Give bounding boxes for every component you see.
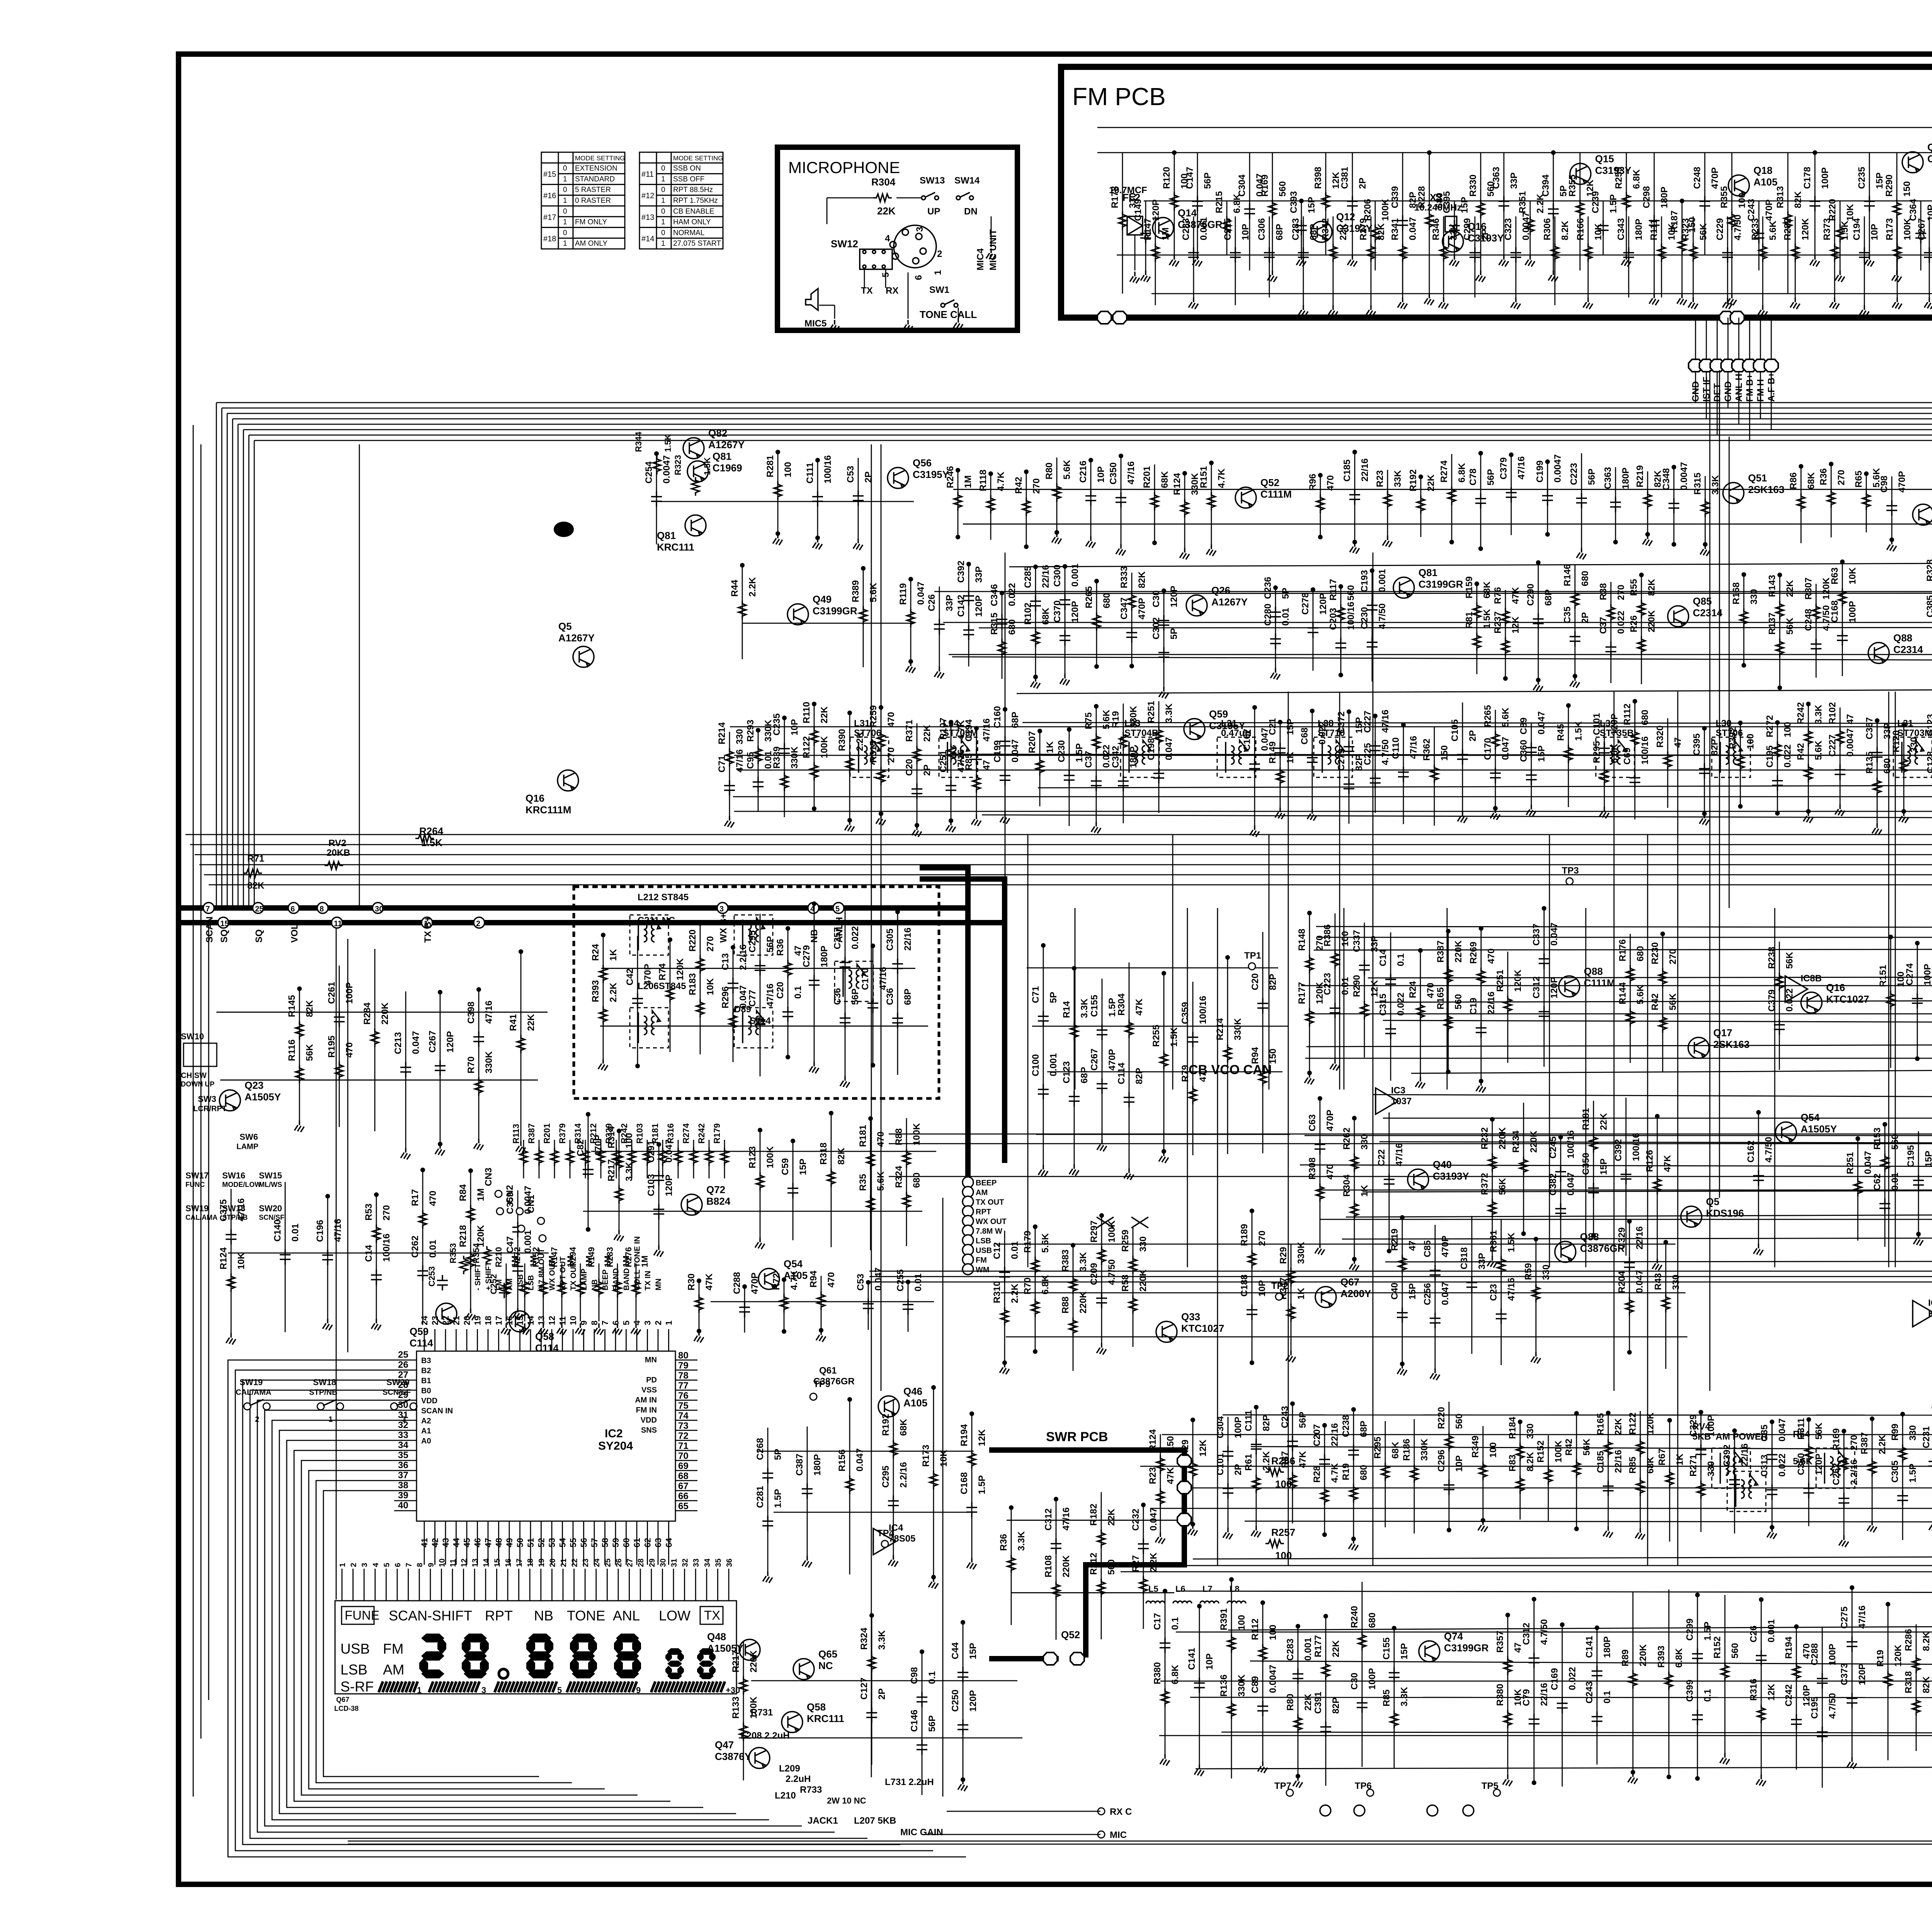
svg-text:R86: R86 [1788, 472, 1799, 489]
svg-text:3: 3 [643, 1321, 653, 1325]
svg-text:24: 24 [593, 1558, 601, 1567]
svg-text:1.5K: 1.5K [1169, 1027, 1179, 1047]
svg-text:STP/NB: STP/NB [309, 1388, 337, 1397]
svg-text:ST735B: ST735B [1600, 728, 1634, 738]
svg-text:28: 28 [398, 1380, 408, 1390]
svg-text:11: 11 [449, 1559, 457, 1567]
svg-text:R393: R393 [590, 980, 601, 1002]
svg-text:8.2K: 8.2K [1525, 1452, 1536, 1471]
svg-text:8: 8 [320, 905, 324, 913]
svg-text:R295: R295 [1592, 741, 1602, 763]
svg-text:470: 470 [1325, 1164, 1335, 1180]
svg-text:0.0047: 0.0047 [1268, 1665, 1278, 1693]
svg-text:CB ENABLE: CB ENABLE [673, 207, 714, 216]
svg-text:C89: C89 [1519, 717, 1529, 734]
svg-text:R19: R19 [1341, 1463, 1351, 1480]
svg-text:L8: L8 [1230, 1584, 1240, 1594]
svg-text:C385: C385 [1925, 595, 1932, 617]
svg-text:C392: C392 [1613, 1139, 1624, 1161]
svg-text:180P: 180P [1621, 468, 1631, 489]
svg-text:10P: 10P [1454, 1455, 1464, 1472]
svg-text:R102: R102 [1827, 702, 1838, 724]
svg-text:R330: R330 [1468, 175, 1478, 197]
svg-text:R233: R233 [1750, 218, 1760, 240]
svg-text:17: 17 [515, 1559, 524, 1567]
svg-text:L206ST845: L206ST845 [638, 981, 686, 991]
svg-text:BEEP: BEEP [976, 1179, 997, 1187]
svg-text:C350: C350 [1581, 1153, 1591, 1175]
svg-text:LSB: LSB [527, 1275, 536, 1290]
svg-text:C288: C288 [732, 1272, 742, 1294]
svg-text:C312: C312 [1531, 976, 1542, 998]
svg-text:12: 12 [460, 1559, 469, 1567]
svg-text:Q12: Q12 [1927, 141, 1932, 153]
svg-text:R386: R386 [1322, 924, 1333, 946]
svg-text:L38: L38 [1318, 718, 1333, 729]
svg-text:B2: B2 [421, 1367, 431, 1375]
svg-text:MN: MN [655, 1278, 663, 1290]
svg-text:C105: C105 [1450, 719, 1460, 741]
svg-text:560: 560 [1890, 1134, 1900, 1150]
svg-text:C95: C95 [745, 752, 756, 769]
svg-text:0.047: 0.047 [916, 581, 926, 605]
svg-text:FM B+: FM B+ [1745, 374, 1755, 402]
svg-text:C295: C295 [881, 1465, 891, 1488]
svg-text:R314: R314 [573, 1123, 583, 1144]
svg-text:1K: 1K [1359, 1185, 1370, 1197]
svg-text:1: 1 [338, 1563, 347, 1567]
svg-text:100: 100 [1340, 931, 1350, 947]
svg-text:SW14: SW14 [954, 175, 980, 186]
svg-text:Q81: Q81 [713, 451, 731, 462]
svg-text:6.8K: 6.8K [1631, 169, 1642, 189]
svg-text:47/16: 47/16 [1516, 456, 1527, 479]
svg-text:31: 31 [670, 1559, 679, 1567]
svg-text:R71: R71 [247, 853, 264, 864]
svg-text:34: 34 [703, 1558, 712, 1567]
svg-text:68P: 68P [903, 989, 913, 1005]
svg-text:C227: C227 [1362, 711, 1373, 733]
svg-text:Q12: Q12 [1336, 211, 1355, 223]
svg-text:220K: 220K [1497, 1127, 1508, 1149]
svg-text:C290: C290 [1526, 584, 1536, 606]
svg-text:330: 330 [1749, 589, 1759, 604]
svg-text:47: 47 [483, 1538, 493, 1547]
svg-text:80: 80 [678, 1350, 689, 1361]
svg-text:R179: R179 [712, 1123, 722, 1144]
svg-text:2: 2 [937, 249, 942, 259]
svg-text:33: 33 [692, 1559, 701, 1567]
svg-text:AM: AM [506, 1278, 514, 1290]
svg-text:R80: R80 [1044, 462, 1054, 479]
svg-text:C178: C178 [1802, 167, 1813, 189]
svg-text:180P: 180P [1602, 1636, 1612, 1658]
svg-text:0.022: 0.022 [1101, 745, 1112, 768]
svg-text:57: 57 [590, 1538, 599, 1547]
svg-text:C111M: C111M [1260, 488, 1292, 500]
svg-text:JACK1: JACK1 [808, 1816, 838, 1826]
svg-text:R272: R272 [1765, 715, 1775, 737]
svg-text:R58: R58 [1120, 1275, 1131, 1292]
svg-text:C305: C305 [1890, 1460, 1900, 1482]
svg-text:23: 23 [430, 1316, 440, 1325]
svg-text:C267: C267 [1917, 218, 1927, 240]
svg-text:R329: R329 [604, 1123, 614, 1144]
svg-text:60: 60 [622, 1538, 631, 1547]
svg-text:55: 55 [568, 1538, 578, 1547]
svg-text:0.01: 0.01 [1340, 977, 1350, 995]
svg-text:C155: C155 [1381, 1637, 1392, 1659]
svg-text:15P: 15P [968, 1643, 978, 1659]
svg-text:R380: R380 [1495, 1684, 1505, 1706]
svg-text:10K: 10K [1593, 223, 1604, 240]
svg-text:15P: 15P [1923, 1151, 1932, 1167]
svg-text:R344: R344 [634, 432, 643, 452]
svg-text:SW19: SW19 [240, 1377, 263, 1387]
svg-text:2P: 2P [1357, 178, 1368, 189]
svg-text:R99: R99 [1890, 1424, 1900, 1441]
svg-text:6: 6 [394, 1563, 402, 1567]
svg-text:A1505Y: A1505Y [1801, 1123, 1837, 1135]
svg-text:C168: C168 [1830, 600, 1840, 622]
svg-text:R383: R383 [1060, 1250, 1071, 1272]
svg-text:C71: C71 [1031, 986, 1041, 1003]
svg-text:C147: C147 [1185, 167, 1195, 189]
svg-text:C26: C26 [927, 594, 937, 611]
svg-text:R94: R94 [808, 1270, 819, 1288]
svg-text:R282: R282 [1782, 218, 1793, 240]
svg-text:Q16: Q16 [526, 792, 544, 804]
svg-text:MN: MN [645, 1356, 657, 1364]
svg-text:330K: 330K [1419, 1438, 1430, 1461]
svg-text:C285: C285 [1023, 566, 1033, 588]
svg-text:680: 680 [1580, 571, 1590, 586]
svg-text:4.7K: 4.7K [1216, 468, 1227, 488]
svg-text:4.7/50: 4.7/50 [1827, 1693, 1838, 1719]
svg-text:1: 1 [563, 197, 567, 205]
svg-text:R173: R173 [1884, 218, 1895, 240]
svg-text:C363: C363 [1603, 467, 1613, 489]
svg-text:2P: 2P [922, 765, 932, 776]
svg-text:C146: C146 [909, 1710, 920, 1732]
svg-text:R320: R320 [1655, 726, 1665, 748]
svg-text:#12: #12 [641, 192, 654, 200]
svg-text:47/16: 47/16 [878, 967, 888, 990]
svg-text:47: 47 [981, 760, 992, 770]
svg-text:R136: R136 [1219, 1675, 1229, 1697]
svg-text:100K: 100K [1107, 1220, 1117, 1243]
svg-text:R14: R14 [1061, 1001, 1072, 1018]
svg-text:0.1: 0.1 [927, 1671, 937, 1684]
svg-text:Q88: Q88 [1584, 966, 1603, 977]
svg-text:R19: R19 [1111, 711, 1121, 728]
svg-text:35: 35 [714, 1559, 723, 1567]
svg-text:S114: S114 [750, 1016, 771, 1026]
svg-text:33P: 33P [1477, 1253, 1487, 1270]
svg-text:R237: R237 [1493, 611, 1503, 633]
svg-text:C267: C267 [427, 1030, 438, 1052]
svg-text:ST706: ST706 [854, 728, 881, 738]
svg-text:SW1: SW1 [929, 285, 949, 295]
svg-text:100P: 100P [1367, 1668, 1378, 1690]
svg-text:R27: R27 [1131, 1555, 1141, 1572]
svg-text:12K: 12K [1198, 1439, 1208, 1457]
svg-text:3: 3 [915, 227, 925, 232]
svg-text:R181: R181 [1581, 1108, 1591, 1130]
svg-text:R152: R152 [1536, 1440, 1546, 1462]
svg-text:C231: C231 [1921, 1426, 1932, 1448]
svg-text:#17: #17 [543, 213, 556, 222]
svg-text:R217: R217 [606, 1159, 617, 1181]
svg-text:10P: 10P [1096, 466, 1106, 483]
svg-text:82P: 82P [1709, 739, 1720, 756]
svg-text:47K: 47K [1298, 1451, 1308, 1468]
svg-text:B3: B3 [421, 1357, 431, 1365]
svg-text:82K: 82K [836, 1148, 847, 1165]
svg-text:100/16: 100/16 [1566, 1130, 1576, 1158]
svg-text:C111: C111 [1243, 1410, 1254, 1431]
svg-text:R122: R122 [1628, 1413, 1638, 1435]
svg-text:VDD: VDD [421, 1397, 437, 1405]
svg-text:270: 270 [1616, 585, 1626, 600]
svg-text:9: 9 [579, 1321, 589, 1325]
svg-text:R81: R81 [1464, 612, 1475, 629]
svg-text:R55: R55 [1629, 579, 1639, 596]
svg-text:CAL/AMA: CAL/AMA [236, 1388, 271, 1397]
svg-text:13: 13 [471, 1559, 480, 1567]
svg-text:Q5: Q5 [558, 621, 572, 632]
svg-text:C381: C381 [1340, 167, 1350, 189]
svg-text:0.047: 0.047 [1010, 739, 1020, 762]
svg-text:R75: R75 [1083, 712, 1094, 729]
svg-text:8.2K: 8.2K [1921, 1631, 1932, 1651]
svg-text:330: 330 [1541, 1265, 1551, 1280]
svg-text:R271: R271 [1688, 1454, 1699, 1476]
svg-text:RPT: RPT [485, 1608, 513, 1624]
svg-text:R194: R194 [1784, 1636, 1794, 1659]
svg-text:R67: R67 [1657, 1448, 1667, 1465]
svg-text:120P: 120P [974, 595, 984, 617]
svg-text:R110: R110 [801, 702, 812, 723]
svg-text:C3193Y: C3193Y [1336, 223, 1372, 234]
svg-text:100/16: 100/16 [823, 455, 833, 483]
svg-text:R135: R135 [1864, 751, 1875, 774]
svg-text:C20: C20 [1250, 973, 1260, 990]
svg-text:R38: R38 [1598, 583, 1609, 600]
svg-text:C203: C203 [1328, 608, 1338, 630]
svg-text:82K: 82K [1646, 579, 1657, 596]
svg-text:47/16: 47/16 [981, 718, 992, 741]
svg-text:64: 64 [664, 1538, 674, 1547]
svg-text:0.0047: 0.0047 [662, 455, 672, 483]
svg-text:SCAN-SHIFT: SCAN-SHIFT [389, 1608, 472, 1624]
svg-text:R389: R389 [850, 580, 861, 602]
svg-text:Q65: Q65 [818, 1648, 837, 1660]
svg-text:0: 0 [661, 165, 665, 173]
svg-text:R362: R362 [1422, 739, 1432, 761]
svg-text:68K: 68K [1645, 1456, 1656, 1474]
svg-text:R192: R192 [881, 1414, 891, 1436]
svg-text:56P: 56P [927, 1715, 937, 1732]
svg-text:2.2K: 2.2K [1010, 1284, 1020, 1303]
svg-text:15: 15 [493, 1559, 502, 1567]
svg-text:C127: C127 [859, 1678, 869, 1700]
svg-text:SW3: SW3 [198, 1094, 216, 1104]
svg-text:C114: C114 [410, 1337, 433, 1349]
svg-text:LCD-38: LCD-38 [334, 1705, 359, 1712]
svg-text:R214: R214 [717, 722, 727, 745]
svg-text:43: 43 [441, 1538, 451, 1547]
svg-text:C256: C256 [1422, 1283, 1433, 1305]
svg-text:TX B+: TX B+ [423, 916, 433, 943]
svg-text:10K: 10K [939, 1450, 949, 1467]
svg-text:56P: 56P [1298, 1412, 1308, 1428]
svg-text:120P: 120P [1318, 593, 1328, 615]
svg-text:R204: R204 [1617, 1271, 1627, 1293]
svg-text:4.7/50: 4.7/50 [1377, 604, 1388, 629]
svg-text:R165: R165 [1435, 987, 1446, 1009]
svg-text:ST710: ST710 [1318, 728, 1345, 738]
svg-text:330: 330 [1359, 1134, 1370, 1150]
svg-text:C238: C238 [1341, 1415, 1351, 1437]
svg-text:R308: R308 [1307, 1158, 1318, 1180]
svg-text:10: 10 [438, 1559, 446, 1567]
svg-text:0.047: 0.047 [855, 1448, 865, 1471]
svg-text:56K: 56K [1814, 1422, 1824, 1440]
svg-text:R304: R304 [1342, 1174, 1352, 1197]
svg-text:22K: 22K [877, 205, 896, 217]
svg-text:22/16: 22/16 [1740, 1443, 1750, 1467]
svg-text:20: 20 [548, 1559, 557, 1567]
svg-text:R192: R192 [1408, 469, 1418, 491]
svg-text:680: 680 [1367, 1613, 1378, 1628]
svg-text:R259: R259 [1120, 1230, 1131, 1252]
svg-text:20KB: 20KB [327, 848, 350, 858]
svg-text:C379: C379 [1498, 457, 1509, 479]
svg-text:R361: R361 [1488, 1230, 1499, 1252]
svg-text:R65: R65 [1854, 471, 1864, 488]
svg-text:8: 8 [590, 1321, 599, 1325]
svg-text:C230: C230 [1056, 740, 1067, 762]
svg-text:100: 100 [1268, 1625, 1278, 1640]
svg-text:R297: R297 [1089, 1221, 1099, 1243]
svg-text:14: 14 [526, 1316, 536, 1325]
svg-text:R165: R165 [1595, 1413, 1606, 1435]
svg-text:C279: C279 [801, 945, 812, 967]
svg-text:R242: R242 [619, 1123, 629, 1144]
svg-text:470: 470 [428, 1191, 438, 1206]
svg-text:18: 18 [526, 1559, 535, 1567]
svg-text:82K: 82K [247, 881, 265, 891]
svg-text:68P: 68P [1079, 1067, 1090, 1083]
svg-text:15P: 15P [1306, 197, 1317, 213]
svg-text:120K: 120K [1893, 1644, 1903, 1667]
svg-text:C339: C339 [1390, 186, 1400, 208]
svg-text:56P: 56P [1587, 469, 1597, 485]
svg-text:22/16: 22/16 [1330, 1423, 1340, 1446]
svg-text:79: 79 [678, 1360, 689, 1371]
svg-text:A105: A105 [1753, 176, 1777, 188]
svg-text:3.3K: 3.3K [1399, 1686, 1410, 1706]
svg-text:R733: R733 [800, 1785, 822, 1795]
svg-text:R119: R119 [898, 583, 908, 605]
svg-text:R126: R126 [1645, 1150, 1655, 1172]
svg-text:ANL: ANL [613, 1608, 640, 1624]
svg-text:R186: R186 [1401, 1439, 1412, 1461]
svg-text:Q82: Q82 [708, 427, 727, 439]
svg-text:C89: C89 [1250, 1676, 1260, 1693]
svg-text:6.8K: 6.8K [1170, 1664, 1180, 1684]
svg-text:68P: 68P [1274, 224, 1285, 240]
svg-text:30: 30 [659, 1559, 667, 1567]
svg-text:R293: R293 [745, 720, 756, 742]
svg-text:22K: 22K [819, 706, 830, 724]
svg-text:100/16: 100/16 [1631, 1133, 1641, 1161]
svg-text:R313: R313 [1775, 186, 1786, 208]
svg-text:MIC GAIN: MIC GAIN [900, 1827, 943, 1838]
svg-text:A1267Y: A1267Y [1211, 596, 1248, 608]
svg-text:0.1: 0.1 [1602, 1691, 1612, 1703]
svg-text:470: 470 [1425, 983, 1436, 998]
svg-text:C199: C199 [1535, 461, 1545, 483]
svg-text:560: 560 [1453, 994, 1464, 1010]
svg-text:R137: R137 [1767, 612, 1777, 634]
svg-text:R169: R169 [1831, 1428, 1842, 1450]
svg-text:R214: R214 [1215, 1018, 1225, 1040]
svg-text:C312: C312 [1043, 1508, 1054, 1530]
svg-text:2.2K: 2.2K [1148, 1552, 1159, 1572]
svg-text:C232: C232 [1131, 1509, 1141, 1531]
svg-text:0: 0 [661, 229, 665, 237]
svg-text:R232: R232 [1480, 1127, 1490, 1149]
svg-text:15P: 15P [798, 1159, 808, 1175]
svg-text:KTC1027: KTC1027 [1826, 993, 1869, 1005]
svg-text:C248: C248 [1692, 167, 1702, 189]
svg-text:R306: R306 [1542, 218, 1553, 240]
svg-text:C302: C302 [1151, 617, 1162, 639]
svg-text:R23: R23 [1148, 1467, 1158, 1484]
svg-text:24: 24 [420, 1316, 429, 1325]
svg-text:0.001: 0.001 [1766, 1619, 1777, 1642]
svg-text:C185: C185 [1342, 459, 1352, 481]
svg-text:22: 22 [571, 1559, 579, 1567]
svg-text:BAND: BAND [622, 1268, 631, 1290]
svg-text:L34: L34 [943, 718, 959, 729]
svg-text:C359: C359 [1180, 1002, 1190, 1024]
svg-text:C357: C357 [832, 927, 843, 949]
svg-text:R143: R143 [1767, 575, 1777, 597]
svg-text:Q23: Q23 [245, 1080, 264, 1091]
svg-text:470P: 470P [1710, 167, 1720, 189]
svg-text:KDS196: KDS196 [1706, 1207, 1744, 1219]
svg-text:0.047: 0.047 [1863, 1151, 1873, 1174]
svg-text:R230: R230 [1650, 942, 1660, 964]
svg-text:4.7/50: 4.7/50 [1107, 1259, 1117, 1285]
svg-text:C347: C347 [1119, 597, 1129, 619]
svg-text:C63: C63 [1307, 1114, 1318, 1131]
svg-text:C162: C162 [1746, 1141, 1756, 1163]
svg-text:R387: R387 [1435, 940, 1446, 962]
svg-text:C30: C30 [1151, 590, 1162, 607]
svg-text:R324: R324 [859, 1627, 869, 1650]
svg-text:R113: R113 [511, 1124, 521, 1144]
svg-text:TONE: TONE [567, 1608, 605, 1624]
svg-text:Q74: Q74 [1444, 1630, 1463, 1642]
svg-text:0: 0 [661, 207, 665, 216]
svg-text:B824: B824 [706, 1195, 731, 1207]
svg-text:180P: 180P [1634, 219, 1644, 240]
svg-text:R257: R257 [1271, 1527, 1295, 1538]
